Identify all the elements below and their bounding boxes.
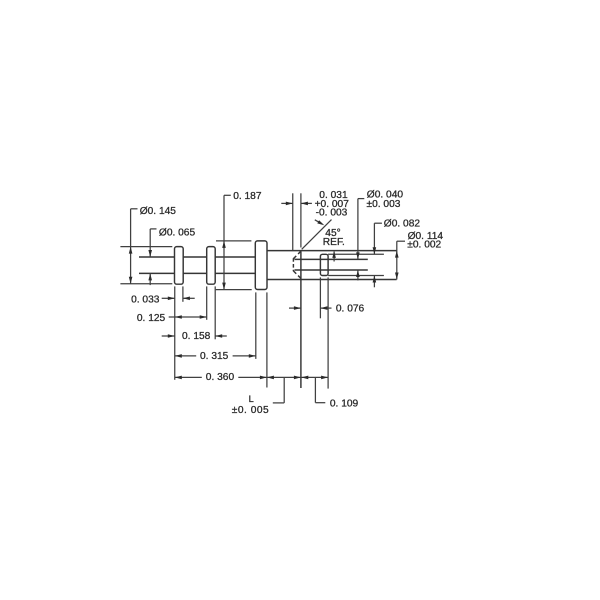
dim line dia .082 lower	[373, 276, 375, 288]
svg-text:±0. 002: ±0. 002	[407, 240, 441, 251]
dim line 0.315 left seg	[175, 355, 196, 357]
leader tick dia .114	[397, 240, 405, 242]
extension: flange1 bottom left	[120, 283, 172, 285]
wire: shaft .065 top, left segment	[139, 256, 175, 258]
arrow dia .082 up	[373, 276, 377, 283]
dim line 0.109	[301, 376, 328, 378]
leader 0.109 vertical	[314, 377, 316, 402]
arrow dia .114 down	[395, 273, 399, 280]
arrow 0.109 left	[301, 376, 308, 380]
dim tail 0.158 left	[162, 335, 175, 337]
leader tick dia .145	[131, 208, 138, 210]
svg-text:L: L	[249, 394, 254, 404]
arrow dia .145 up	[129, 247, 133, 254]
extension: chamfer start up	[292, 193, 294, 250]
dashed chamfer edge top	[293, 251, 301, 259]
45 deg chamfer leader diagonal	[302, 220, 332, 250]
arrow 0.031 left-pointing	[301, 202, 308, 206]
dim tail 0.033 right	[183, 297, 195, 299]
wire: shaft .040 top	[295, 258, 368, 260]
extension: flange2 left down	[206, 286, 208, 319]
arrow dia .065 up	[148, 273, 152, 280]
extension: flange4 right down	[327, 277, 329, 388]
svg-text:0. 125: 0. 125	[137, 313, 166, 324]
arrow dia .114 up	[395, 251, 399, 258]
svg-text:±0. 003: ±0. 003	[367, 199, 401, 210]
arrow 0.158 left-pointing	[215, 334, 222, 338]
arrow L right	[294, 376, 301, 380]
extension: part end up	[300, 193, 302, 247]
wire: shaft .065 bottom, right segment	[215, 272, 255, 274]
dashed chamfer face vertical	[292, 258, 294, 271]
svg-text:-0. 003: -0. 003	[316, 208, 348, 219]
arrow 0.076 left-pointing	[320, 306, 327, 310]
ref arrow up at .114 line	[332, 251, 336, 258]
arrow dia .145 down	[129, 277, 133, 284]
dim line dia .065 upper	[149, 229, 151, 257]
dim tail 0.076 right	[320, 307, 331, 309]
svg-text:0. 158: 0. 158	[182, 331, 211, 342]
wire: shaft .114 top + extension right	[267, 250, 397, 252]
svg-text:0. 315: 0. 315	[200, 351, 229, 362]
dim tail 0.031 left	[281, 202, 292, 204]
ref arrow tail at flange4	[333, 252, 335, 262]
leader tick dia .065	[150, 228, 156, 230]
dim line dia .082 upper	[373, 223, 375, 254]
flange 2 (dia .145)	[207, 247, 216, 285]
extension: flange3 bottom left	[216, 289, 252, 291]
arrow 0.360 left	[175, 376, 182, 380]
arrow dia .040 down	[356, 252, 360, 259]
dim line dia .065 lower	[149, 273, 151, 285]
flange 3 (dia .187)	[255, 241, 267, 290]
arrow .187 down	[222, 283, 226, 290]
leader tick dia .040	[358, 198, 364, 200]
leader 0.109 horizontal	[315, 402, 325, 404]
arrow dia .065 down	[148, 250, 152, 257]
arrow L left	[267, 376, 274, 380]
dim line 0.315 right seg	[233, 355, 256, 357]
dim line dia .114	[396, 241, 398, 279]
dim line dia .145	[130, 209, 132, 284]
extension: dia .082 top	[328, 253, 384, 255]
wire: shaft .040 bottom	[295, 269, 368, 271]
arrow 0.125 left	[175, 315, 182, 319]
dashed chamfer edge bottom	[293, 271, 301, 279]
extension: flange1 top left	[120, 246, 172, 248]
extension: flange1 left down	[174, 286, 176, 379]
wire: shaft .114 bottom + extension right	[267, 279, 397, 281]
dim line L	[267, 376, 301, 378]
arrow 0.109 right	[321, 376, 328, 380]
wire: shaft .065 bottom, mid segment	[183, 272, 207, 274]
svg-text:Ø0. 145: Ø0. 145	[140, 206, 177, 217]
flange 4 (dia .082)	[320, 254, 328, 275]
dim tail 0.158 right	[215, 335, 227, 337]
wire: shaft .065 top, mid segment	[183, 256, 207, 258]
leader L horizontal	[273, 402, 284, 404]
dim line 0.360 right seg	[238, 376, 267, 378]
svg-text:0. 187: 0. 187	[233, 191, 262, 202]
extension: dia .082 bottom	[328, 275, 384, 277]
extension: flange4 left down	[319, 277, 321, 318]
arrow 0.031 right-pointing	[286, 202, 293, 206]
45 deg arrowhead	[317, 220, 324, 225]
leader tick .187	[224, 194, 231, 196]
arrow 0.360 right	[260, 376, 267, 380]
arrow 0.033 right-pointing	[168, 297, 175, 301]
arrow 0.125 right	[200, 315, 207, 319]
arrow 0.076 right-pointing	[294, 306, 301, 310]
dim line 0.125	[169, 316, 207, 318]
arrow 0.033 left-pointing	[183, 297, 190, 301]
45 deg arrow shaft	[315, 220, 322, 224]
dim line dia .040 upper	[357, 199, 359, 260]
arrow 0.315 left	[175, 354, 182, 358]
arrow dia .040 up	[356, 270, 360, 277]
dim tail 0.031 right	[301, 202, 312, 204]
wire: shaft .065 bottom, left segment	[139, 272, 175, 274]
svg-text:0. 033: 0. 033	[131, 294, 160, 305]
extension: flange3 left down	[255, 292, 257, 359]
svg-text:0. 109: 0. 109	[330, 399, 359, 410]
extension: flange2 right down	[214, 286, 216, 339]
arrow dia .082 down	[373, 247, 377, 254]
svg-text:Ø0. 082: Ø0. 082	[384, 219, 421, 230]
arrow 0.158 right-pointing	[168, 334, 175, 338]
dim line .187	[223, 195, 225, 289]
leader L vertical	[283, 377, 285, 403]
flange 1 (dia .145)	[175, 247, 184, 285]
dim line dia .040 lower	[357, 270, 359, 280]
wire: end face of .114 section + extension down	[300, 251, 302, 388]
leader tick dia .082	[374, 222, 382, 224]
dim tail 0.033 left	[162, 297, 175, 299]
dim line 0.360 left seg	[175, 376, 202, 378]
extension: flange1 right down	[182, 286, 184, 301]
svg-text:REF.: REF.	[323, 237, 345, 248]
svg-text:0. 360: 0. 360	[206, 372, 235, 383]
arrow .187 up	[222, 241, 226, 248]
svg-text:0. 076: 0. 076	[336, 304, 365, 315]
extension: flange3 right down	[266, 292, 268, 387]
svg-text:Ø0. 065: Ø0. 065	[159, 227, 196, 238]
dim tail 0.076 left	[289, 307, 301, 309]
svg-text:±0. 005: ±0. 005	[232, 405, 269, 416]
wire: shaft .065 top, right segment	[215, 256, 255, 258]
arrow 0.315 right	[249, 354, 256, 358]
extension: flange3 top left	[216, 240, 251, 242]
